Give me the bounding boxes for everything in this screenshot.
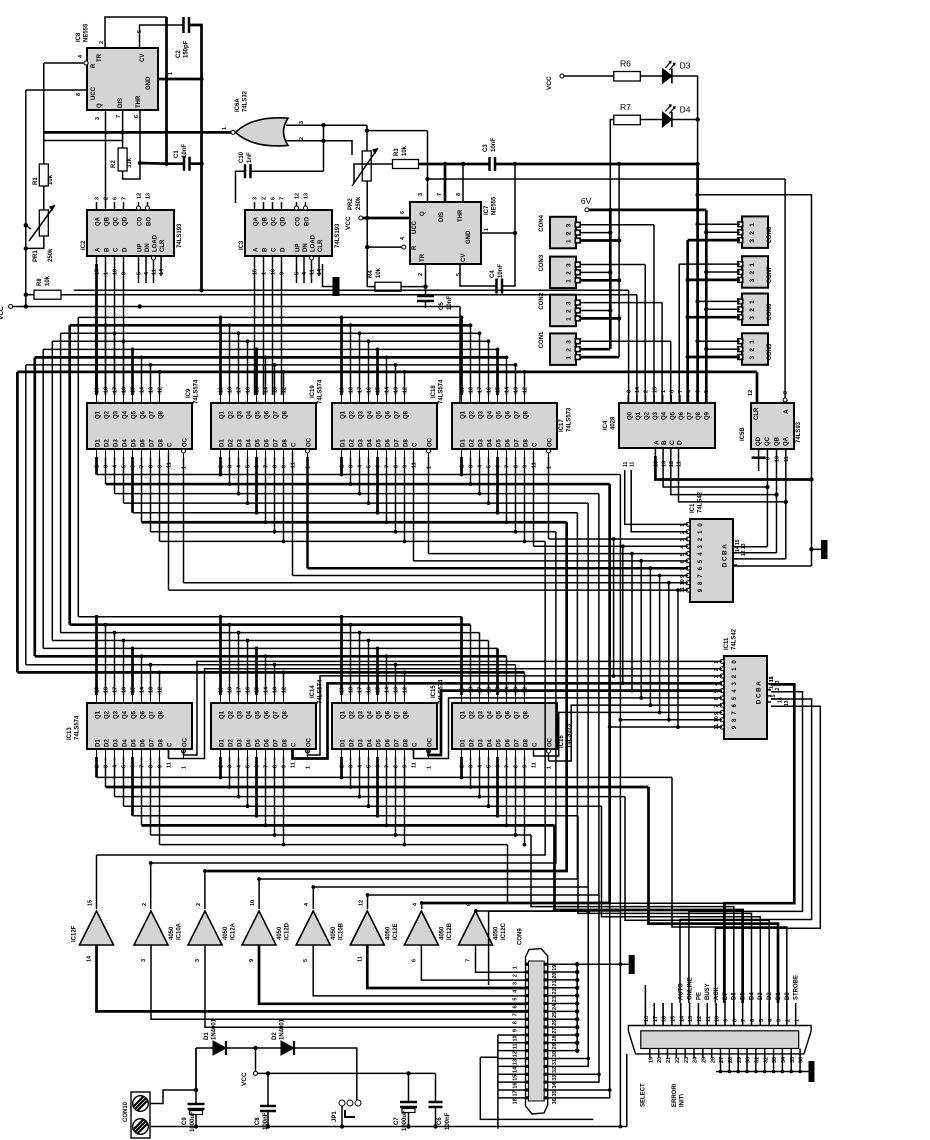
buffer IC12A 4050: [188, 911, 222, 945]
wire: [77, 317, 79, 616]
svg-text:IC17: IC17: [559, 419, 565, 432]
wire: [114, 633, 116, 695]
wire: [506, 757, 508, 825]
wire bus line: [61, 632, 480, 634]
svg-text:12: 12: [513, 1051, 519, 1057]
capacitor C10 1nF: [251, 170, 324, 172]
svg-text:12: 12: [295, 193, 301, 199]
svg-text:100nF: 100nF: [445, 1112, 451, 1130]
wire: [368, 457, 370, 503]
svg-text:150pF: 150pF: [184, 40, 190, 58]
svg-text:UCC: UCC: [91, 86, 97, 100]
svg-text:2: 2: [196, 903, 202, 906]
wire pin: [786, 1003, 788, 1026]
wire: [488, 341, 490, 395]
wire pin: [724, 1003, 726, 1026]
wire pin: [750, 1003, 752, 1026]
wire buffer input: [421, 903, 423, 909]
svg-text:10nF: 10nF: [447, 296, 453, 310]
svg-text:A: A: [783, 409, 790, 414]
svg-text:IC8: IC8: [76, 32, 82, 42]
wire: [238, 757, 240, 797]
svg-text:7: 7: [437, 193, 443, 196]
6V corner down to IC4: [705, 210, 708, 403]
svg-text:VCC: VCC: [241, 1072, 248, 1086]
svg-text:18: 18: [644, 1016, 650, 1022]
svg-text:10k: 10k: [402, 145, 408, 156]
svg-text:3: 3: [95, 117, 101, 120]
wire: [680, 699, 812, 1003]
wire: [114, 457, 116, 494]
svg-text:16: 16: [513, 1083, 519, 1089]
wire bus line: [35, 356, 507, 359]
wire R3 right rail: [419, 163, 490, 166]
wire: [247, 341, 249, 395]
wire: [184, 661, 723, 755]
wire bus line: [124, 502, 589, 504]
svg-text:12: 12: [741, 550, 747, 556]
wire: [51, 341, 53, 640]
wire: [376, 349, 379, 395]
LED D3: [662, 61, 675, 83]
svg-text:74LS193: 74LS193: [177, 223, 183, 248]
connector CON1: [550, 333, 581, 365]
wire: [386, 357, 388, 395]
wire: [131, 457, 134, 513]
svg-text:10nF: 10nF: [491, 138, 497, 152]
svg-text:Q4: Q4: [662, 411, 668, 420]
wire: [141, 357, 143, 395]
wire: [105, 625, 107, 695]
wire: [141, 757, 143, 825]
VCC node LEDs: [560, 74, 564, 78]
svg-text:8: 8: [456, 193, 462, 196]
svg-text:11: 11: [677, 461, 683, 467]
svg-text:PR2: PR2: [348, 198, 354, 210]
svg-text:R: R: [91, 63, 97, 68]
svg-text:BO: BO: [147, 217, 153, 226]
gate input wires: [286, 124, 324, 126]
wire C2 right / thick vertical: [189, 25, 202, 290]
wire: [247, 641, 249, 696]
wire: [515, 457, 517, 532]
wire: [123, 757, 125, 806]
resistor R7: [614, 115, 641, 125]
svg-text:C: C: [722, 556, 729, 561]
wire: [515, 365, 517, 395]
ground symbol right: [812, 548, 822, 550]
wire bus line: [97, 474, 621, 476]
svg-text:Q: Q: [420, 211, 426, 216]
wire: [340, 317, 343, 395]
wire pin: [662, 1003, 664, 1026]
svg-text:11: 11: [310, 269, 316, 275]
wire: [548, 457, 550, 539]
wire CON4 pins: [580, 224, 654, 226]
svg-text:ACK: ACK: [714, 986, 720, 1000]
wire: [479, 457, 481, 494]
svg-text:11: 11: [706, 1016, 712, 1022]
svg-text:IC12E: IC12E: [393, 923, 399, 940]
wire buffer output: [205, 945, 526, 1027]
svg-text:4050: 4050: [331, 926, 337, 940]
svg-text:10k: 10k: [45, 275, 51, 286]
wire: [169, 669, 723, 759]
svg-text:R7: R7: [620, 102, 631, 112]
svg-text:D4: D4: [680, 105, 691, 115]
wire buffer output: [151, 945, 526, 1019]
svg-text:17: 17: [653, 1016, 659, 1022]
wire: [16, 372, 19, 673]
connector CON3: [550, 257, 581, 289]
svg-text:Q1: Q1: [636, 411, 642, 420]
svg-text:IC1: IC1: [690, 503, 696, 513]
IC5B plus mark: [758, 449, 760, 471]
wire: [413, 452, 415, 561]
svg-text:22: 22: [675, 1057, 681, 1063]
svg-text:250k: 250k: [48, 248, 54, 262]
wire CON6 pins: [698, 300, 740, 302]
svg-text:QD: QD: [756, 436, 762, 446]
svg-text:19: 19: [648, 1057, 654, 1063]
svg-text:13: 13: [304, 193, 310, 199]
wire: [359, 757, 361, 797]
svg-text:BO: BO: [305, 217, 311, 226]
wire: [386, 757, 388, 825]
wire bus line: [26, 364, 516, 366]
wire DIS R2: [122, 110, 124, 148]
wire pin: [777, 1003, 779, 1026]
svg-text:6: 6: [411, 959, 417, 962]
svg-text:C: C: [669, 440, 676, 445]
connector centronics socket: [628, 1026, 811, 1054]
wire: [219, 317, 222, 395]
wire bottom rail corner up: [626, 1054, 628, 1127]
svg-text:32: 32: [552, 1067, 558, 1073]
wire: [265, 457, 267, 522]
svg-text:11: 11: [629, 461, 635, 467]
svg-text:NE555: NE555: [84, 23, 90, 42]
capacitor C7 1000uF: [400, 1101, 417, 1104]
svg-text:C2: C2: [176, 50, 182, 58]
wire bus line: [52, 340, 488, 342]
wire bus to printer: [508, 845, 725, 1003]
buffer IC10B 4050: [296, 911, 330, 945]
wire: [715, 706, 820, 1003]
svg-text:6: 6: [400, 211, 406, 214]
svg-text:C7: C7: [394, 1117, 400, 1125]
wire: [479, 757, 481, 797]
rail y=290.2: [74, 289, 629, 291]
wire: [68, 325, 71, 624]
IC5B pin12 clock: [756, 372, 759, 403]
wire: [395, 457, 397, 532]
wire bus data vertical: [476, 475, 621, 912]
svg-text:3: 3: [95, 197, 101, 200]
wire: [460, 617, 463, 695]
resistor R1 10k: [43, 63, 45, 164]
wire: [496, 349, 499, 395]
wire: [395, 665, 397, 695]
svg-text:IC11: IC11: [724, 637, 730, 650]
svg-text:VCC: VCC: [345, 216, 352, 230]
svg-text:Q6: Q6: [679, 411, 685, 420]
wire: [42, 349, 44, 648]
svg-text:1: 1: [513, 966, 519, 969]
svg-text:2: 2: [418, 273, 424, 276]
wire buffer input: [96, 855, 98, 909]
resistor R2 33k: [118, 148, 127, 171]
wire bus line: [106, 786, 649, 789]
wire: [386, 457, 388, 522]
svg-text:3: 3: [513, 982, 519, 985]
6V rail down x=610.3: [609, 210, 612, 349]
svg-text:10: 10: [271, 269, 277, 275]
svg-text:7: 7: [741, 1019, 747, 1022]
svg-text:11: 11: [784, 456, 790, 462]
wire gate inputs to right: [324, 124, 368, 126]
svg-text:74LS574: 74LS574: [194, 379, 200, 404]
wire: [255, 648, 258, 695]
IC4 4028 decoder: [619, 403, 715, 448]
svg-text:C1: C1: [174, 150, 180, 158]
svg-text:34: 34: [552, 1082, 558, 1089]
svg-text:1: 1: [262, 272, 268, 275]
wire: [404, 757, 406, 845]
wire: [524, 372, 526, 395]
wire: [131, 757, 134, 816]
svg-text:13: 13: [784, 700, 790, 706]
svg-text:74LS93: 74LS93: [796, 421, 802, 443]
svg-text:36: 36: [552, 1098, 558, 1104]
svg-text:11: 11: [623, 461, 629, 467]
wire: [368, 641, 370, 696]
svg-text:16: 16: [662, 1016, 668, 1022]
svg-text:2: 2: [513, 974, 519, 977]
svg-text:10: 10: [250, 900, 256, 906]
wire: [610, 726, 722, 728]
buffer IC10A 4050: [134, 911, 168, 945]
wire R1 to PR1: [43, 186, 45, 210]
wire Q out line y179: [428, 178, 786, 180]
wire: [25, 365, 27, 665]
wire: [376, 757, 379, 816]
counter column wires IC2 to IC9: [95, 264, 98, 395]
svg-text:D5: D5: [741, 992, 747, 1000]
wire: [265, 656, 267, 695]
wire: [274, 757, 276, 835]
svg-text:A: A: [653, 440, 660, 445]
svg-text:12: 12: [697, 1016, 703, 1022]
svg-text:QD: QD: [281, 216, 287, 226]
svg-text:74LS42: 74LS42: [698, 491, 704, 513]
wire: [404, 372, 406, 395]
svg-text:7: 7: [122, 197, 128, 200]
wire DIS column: [444, 164, 447, 202]
svg-text:25: 25: [552, 1012, 558, 1018]
svg-text:QC: QC: [272, 216, 278, 226]
wire CON10 bottom to rail: [150, 1126, 163, 1128]
wire: [470, 625, 472, 695]
wire: [159, 457, 161, 541]
svg-text:15: 15: [513, 1075, 519, 1081]
svg-text:1N4001: 1N4001: [212, 1018, 218, 1040]
wire THR node: [139, 110, 141, 163]
wire pin: [768, 1003, 770, 1026]
wire: [159, 757, 161, 845]
svg-text:74LS193: 74LS193: [335, 223, 341, 248]
svg-text:13: 13: [688, 1016, 694, 1022]
svg-text:22: 22: [552, 988, 558, 994]
CON9 left pins 10-17 wires: [498, 1034, 526, 1036]
svg-text:2: 2: [142, 903, 148, 906]
buffer IC12C 4050: [459, 911, 493, 945]
svg-text:IC16: IC16: [559, 735, 565, 748]
svg-text:27: 27: [552, 1028, 558, 1034]
connector CON7: [737, 256, 768, 288]
wire bus line: [17, 671, 524, 674]
wire pin1 right: [158, 78, 202, 81]
svg-text:THR: THR: [136, 95, 142, 108]
wire bus line: [61, 332, 480, 334]
svg-text:9: 9: [513, 1029, 519, 1032]
svg-text:C: C: [114, 247, 120, 252]
wire buffer output: [476, 945, 526, 972]
wire: [265, 757, 267, 825]
svg-text:1: 1: [794, 1019, 800, 1022]
svg-text:JP1: JP1: [332, 1111, 338, 1122]
connector CON9 centronics: [526, 949, 548, 1115]
svg-text:Q2: Q2: [645, 411, 651, 420]
wire: [368, 341, 370, 395]
svg-text:IC12B: IC12B: [447, 922, 453, 940]
svg-text:2: 2: [104, 197, 110, 200]
wire CV column: [460, 264, 497, 286]
svg-text:11: 11: [513, 1043, 519, 1049]
IC4 ABCD wires to counter bus: [655, 456, 811, 480]
wire bus data vertical: [368, 494, 599, 895]
svg-text:Q8: Q8: [696, 411, 702, 420]
svg-text:CON1: CON1: [539, 331, 545, 348]
svg-text:6: 6: [134, 115, 140, 118]
IC7 NE555 timer: [410, 202, 481, 264]
svg-text:74LS574: 74LS574: [439, 379, 445, 404]
svg-text:PE: PE: [696, 992, 702, 1000]
connector CON6: [737, 294, 768, 326]
resistor R8 10k: [34, 290, 61, 299]
svg-text:10: 10: [775, 456, 781, 462]
svg-text:UCC: UCC: [412, 220, 418, 234]
buffer IC12B 4050: [404, 911, 438, 945]
buffer IC12E 4050: [350, 911, 384, 945]
pin3 rail right CONs: [686, 240, 689, 403]
wire pin: [706, 1003, 708, 1026]
wire buffer input: [258, 879, 260, 909]
svg-text:R1: R1: [33, 177, 39, 185]
IC11 74LS42 decoder: [724, 656, 767, 739]
svg-text:3: 3: [418, 193, 424, 196]
svg-text:9: 9: [122, 272, 128, 275]
wire bus line: [142, 521, 567, 524]
wire bus line: [124, 805, 602, 807]
svg-text:10: 10: [113, 269, 119, 275]
svg-text:19: 19: [552, 965, 558, 971]
wire: [479, 333, 481, 395]
svg-text:12: 12: [358, 900, 364, 906]
latch IC16 74LS573: [452, 686, 557, 769]
svg-text:31: 31: [552, 1059, 558, 1065]
svg-text:B: B: [722, 550, 729, 555]
wire CON2 pins: [580, 302, 662, 304]
svg-text:26: 26: [552, 1020, 558, 1026]
wire: [274, 665, 276, 695]
wire buffer input: [312, 887, 314, 909]
svg-text:IC3: IC3: [239, 240, 245, 250]
svg-text:QB: QB: [774, 436, 780, 446]
wire: [404, 672, 406, 695]
svg-text:IC15: IC15: [431, 685, 437, 698]
svg-text:B: B: [105, 247, 111, 252]
wire bus line: [115, 796, 626, 798]
svg-text:Q3: Q3: [653, 411, 659, 420]
wire: [283, 457, 285, 541]
wire buffer output: [367, 945, 525, 988]
svg-text:C6: C6: [437, 1117, 443, 1125]
svg-text:B: B: [756, 687, 763, 692]
svg-text:23: 23: [552, 996, 558, 1002]
wire: [386, 656, 388, 695]
wire bus line: [106, 483, 610, 486]
svg-text:13: 13: [741, 543, 747, 549]
LED D4: [662, 105, 675, 127]
svg-text:5: 5: [295, 272, 301, 275]
svg-text:5: 5: [456, 273, 462, 276]
wire pin: [715, 1003, 717, 1026]
svg-text:7: 7: [678, 390, 684, 393]
wire: [95, 457, 98, 475]
capacitor C2 150pF: [182, 17, 185, 33]
wire: [350, 625, 352, 695]
wire buffer output: [421, 945, 525, 980]
svg-text:3: 3: [299, 121, 305, 124]
IC1 74LS42 decoder: [690, 519, 733, 602]
wire bus line: [160, 540, 546, 542]
connector CON2: [550, 295, 581, 327]
wire pin: [680, 1003, 682, 1026]
wire: [429, 691, 723, 755]
wire: [350, 325, 352, 395]
wire: [229, 625, 231, 695]
svg-text:CLR: CLR: [318, 239, 324, 252]
wire: [470, 325, 472, 395]
wire CON7 pins: [679, 263, 740, 265]
wire bus line: [115, 493, 599, 495]
rail corners down to IC4: [628, 290, 630, 403]
wire: [283, 672, 285, 695]
wire: [395, 757, 397, 835]
wire: [105, 457, 107, 484]
svg-text:IC12A: IC12A: [231, 922, 237, 940]
svg-text:B: B: [661, 440, 668, 445]
VCC node left: [9, 305, 13, 309]
wire bus line: [78, 316, 461, 318]
wire bus data vertical: [151, 532, 556, 863]
svg-text:IC5B: IC5B: [740, 427, 746, 441]
wire: [219, 457, 222, 475]
wire: [613, 539, 615, 676]
svg-text:C: C: [272, 247, 278, 252]
wire: [622, 546, 624, 683]
